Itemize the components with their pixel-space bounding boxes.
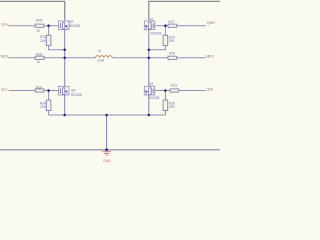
wire QLH input <box>9 25 36 27</box>
wire R29 to MD2 <box>177 57 206 59</box>
wire R32 pulldown drop <box>48 26 50 36</box>
resistor R31 <box>170 84 179 92</box>
svg-text:MD1: MD1 <box>1 55 9 59</box>
svg-text:10: 10 <box>36 60 40 64</box>
node left output <box>63 57 66 60</box>
resistor R33 <box>163 35 175 45</box>
svg-text:R29: R29 <box>169 51 175 55</box>
svg-text:Q3: Q3 <box>149 82 154 86</box>
wire left output column <box>64 30 66 86</box>
resistor R26 <box>35 18 44 33</box>
node left source rail <box>63 114 66 117</box>
node right output <box>148 57 151 60</box>
svg-text:SI2308: SI2308 <box>149 96 160 100</box>
svg-text:QRH: QRH <box>207 21 216 25</box>
svg-text:Q2: Q2 <box>149 17 154 21</box>
svg-text:QLH: QLH <box>1 22 9 26</box>
resistor R29 <box>168 51 177 59</box>
svg-text:R27: R27 <box>168 20 174 24</box>
svg-text:L1: L1 <box>98 49 102 53</box>
svg-text:10: 10 <box>36 29 40 33</box>
wire R33 pulldown drop <box>164 26 166 36</box>
wire VCC top-right (gray supply feed) <box>149 1 220 18</box>
wire left source column <box>64 94 66 115</box>
resistor R28 <box>35 52 44 64</box>
wire source rail <box>49 114 166 116</box>
wire R35 pulldown drop <box>164 91 166 101</box>
resistor R27 <box>168 20 177 27</box>
wire R27 to QRH <box>177 25 206 27</box>
wire right drain column <box>148 18 150 21</box>
wire L1 to right output node and R29 <box>112 57 168 59</box>
resistor R30 <box>35 86 44 93</box>
svg-text:R30: R30 <box>36 86 42 90</box>
resistor R32 <box>40 35 51 46</box>
wire R34 bottom to source rail <box>48 111 50 116</box>
transistor Q2 <box>144 17 161 35</box>
svg-text:Q4: Q4 <box>71 88 76 92</box>
wire R33 bottom to right column <box>149 46 166 50</box>
svg-text:R26: R26 <box>36 18 42 22</box>
svg-text:Q1: Q1 <box>69 19 74 23</box>
svg-text:R28: R28 <box>36 52 42 56</box>
svg-text:20K: 20K <box>40 39 47 43</box>
wire Q2 gate to R27 <box>153 25 168 27</box>
node QLH gate junction <box>47 24 50 27</box>
node QRL gate junction <box>164 89 167 92</box>
resistor R34 <box>40 100 51 110</box>
node ground junction <box>105 148 108 151</box>
svg-text:SI2308: SI2308 <box>151 32 162 36</box>
wire ground drop <box>106 115 108 150</box>
svg-text:GND: GND <box>103 159 112 163</box>
wire R28 to left output node <box>44 57 96 59</box>
wire MD1 input <box>9 57 36 59</box>
inductor L1 <box>96 49 113 62</box>
svg-text:20K: 20K <box>169 105 176 109</box>
node QRH gate junction <box>164 24 167 27</box>
wire right source column <box>148 94 150 115</box>
node QLL gate junction <box>47 89 50 92</box>
wire R34 pulldown drop <box>48 91 50 101</box>
wire VCC top-left (gray supply feed) <box>0 1 65 18</box>
svg-text:SI2308: SI2308 <box>69 24 80 28</box>
wire R26 to Q1 gate <box>44 25 60 27</box>
wire R32 bottom to left column <box>49 46 65 50</box>
wire Q3 gate to R31 <box>153 90 170 92</box>
svg-text:QLL: QLL <box>1 87 8 91</box>
svg-text:SI2308: SI2308 <box>71 93 82 97</box>
transistor Q4 <box>59 86 82 97</box>
transistor Q1 <box>59 19 80 29</box>
wire ground rail <box>0 149 220 151</box>
node left pulldown tie <box>63 49 66 52</box>
svg-text:1mH: 1mH <box>97 58 105 62</box>
svg-text:R31: R31 <box>171 84 177 88</box>
wire QLL input <box>9 90 36 92</box>
wire R30 to Q4 gate <box>44 90 60 92</box>
svg-text:20K: 20K <box>40 105 47 109</box>
node center source rail <box>105 114 108 117</box>
node right pulldown tie <box>148 49 151 52</box>
wire R31 to QRL <box>179 90 206 92</box>
wire R35 bottom to source rail <box>164 111 166 116</box>
wire left drain column <box>64 18 66 21</box>
resistor R35 <box>163 100 175 110</box>
transistor Q3 <box>144 82 159 100</box>
svg-text:20K: 20K <box>169 39 176 43</box>
ground symbol <box>102 152 111 155</box>
svg-text:MD2: MD2 <box>206 54 214 58</box>
node right source rail <box>148 114 151 117</box>
background sheet <box>0 0 220 167</box>
wire right output column <box>148 30 150 86</box>
svg-text:QRL: QRL <box>207 88 215 92</box>
